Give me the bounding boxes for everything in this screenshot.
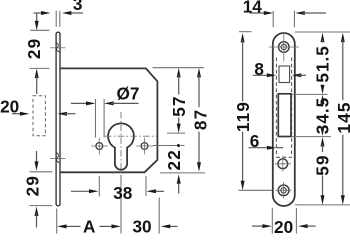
svg-text:29: 29	[23, 175, 43, 197]
svg-text:57: 57	[169, 95, 189, 117]
svg-text:30: 30	[132, 216, 151, 234]
svg-text:119: 119	[233, 101, 253, 132]
svg-text:145: 145	[334, 101, 350, 133]
svg-text:87: 87	[191, 109, 211, 131]
svg-text:22: 22	[164, 149, 184, 171]
svg-text:A: A	[83, 216, 95, 234]
svg-text:59: 59	[313, 154, 333, 176]
svg-text:Ø7: Ø7	[117, 84, 140, 104]
svg-text:14: 14	[243, 0, 263, 17]
svg-text:29: 29	[24, 38, 44, 60]
svg-text:3: 3	[73, 0, 83, 14]
svg-text:20: 20	[274, 217, 293, 234]
svg-text:38: 38	[113, 183, 133, 203]
svg-text:51.5: 51.5	[313, 45, 333, 82]
